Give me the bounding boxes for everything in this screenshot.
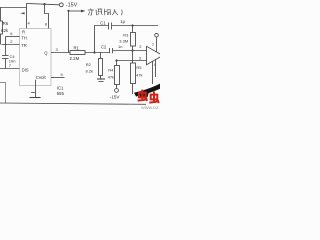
- wire pin8 drop: [45, 4, 49, 29]
- svg-text:Q: Q: [44, 50, 48, 55]
- capacitor C3 plate: [31, 92, 35, 94]
- wire R2 branch: [100, 53, 102, 59]
- svg-text:R5: R5: [136, 65, 142, 70]
- wire left bottom stub: [0, 83, 6, 104]
- wire C2 to op-amp: [113, 50, 147, 52]
- arrow mark: [20, 12, 24, 14]
- wire R4 bottom: [116, 85, 118, 89]
- svg-text:4: 4: [28, 21, 31, 26]
- svg-text:C1: C1: [100, 21, 106, 26]
- wire pin7 DIS: [0, 68, 20, 70]
- wire op-amp pin5 down: [155, 59, 157, 77]
- wire pin1 ground drop: [35, 80, 37, 98]
- logo watermark: [134, 84, 160, 110]
- svg-text:C2: C2: [101, 44, 107, 49]
- svg-text:CVolt: CVolt: [36, 75, 47, 80]
- svg-text:82k: 82k: [1, 28, 9, 33]
- svg-text:R4: R4: [108, 67, 114, 72]
- svg-text:555: 555: [57, 91, 65, 96]
- svg-text:TH: TH: [21, 36, 27, 41]
- char bo: [96, 9, 102, 15]
- wire riser to top rail: [26, 3, 28, 28]
- wire C1 branch riser: [95, 26, 109, 53]
- logo red char 1: [138, 90, 160, 103]
- svg-text:-15V: -15V: [66, 2, 78, 8]
- op-amp U2 triangle: [147, 46, 163, 65]
- wire top-left rail: [0, 7, 27, 9]
- char fang: [88, 8, 94, 15]
- wire ground rail: [0, 103, 146, 104]
- wire op-amp pin4 down: [152, 61, 154, 84]
- terminal pin7 circle: [155, 33, 159, 37]
- wire op-amp pin3 input: [117, 60, 147, 62]
- node junction dot pin2 net: [131, 49, 133, 51]
- svg-text:IC1: IC1: [57, 86, 64, 91]
- resistor R6 (left edge, half visible): [0, 21, 3, 34]
- resistor R3: [132, 26, 134, 33]
- ground R2: [97, 78, 105, 80]
- labels: [1, 2, 157, 99]
- node junction dot top rail: [43, 3, 45, 5]
- resistor R4: [115, 66, 120, 85]
- wire output tap vertical: [68, 11, 70, 53]
- wire pin3 output: [51, 52, 70, 54]
- wire pin6 TH: [6, 36, 20, 38]
- terminal -15V circle: [115, 89, 119, 93]
- svg-text:6: 6: [10, 31, 13, 36]
- wire pin2 TR: [2, 44, 20, 46]
- ground bar: [30, 97, 41, 99]
- svg-text:4: 4: [154, 62, 157, 67]
- char ru: [112, 9, 118, 15]
- wire R1 right: [85, 52, 109, 54]
- label square-wave annotation (fake CJK strokes): [88, 8, 122, 15]
- IC U1 555 box: [20, 29, 52, 86]
- svg-text:8.2k: 8.2k: [86, 68, 94, 73]
- svg-text:3.3M: 3.3M: [119, 39, 128, 44]
- svg-text:47k: 47k: [136, 72, 142, 77]
- svg-text:7: 7: [9, 63, 12, 68]
- svg-text:5: 5: [61, 72, 64, 77]
- wire pin5 stub: [51, 77, 65, 79]
- svg-text:WWW.DZ: WWW.DZ: [141, 105, 159, 110]
- svg-text:2.2M: 2.2M: [70, 56, 80, 61]
- svg-text:R: R: [22, 29, 25, 34]
- capacitor C4: [2, 55, 9, 57]
- wire TH-TR tie: [5, 37, 7, 56]
- svg-text:3: 3: [56, 47, 59, 52]
- svg-text:8: 8: [45, 21, 48, 26]
- logo swoosh: [134, 84, 160, 97]
- svg-text:1μ: 1μ: [120, 19, 125, 24]
- resistor R1: [70, 51, 85, 55]
- wire R5 riser: [132, 51, 134, 64]
- svg-text:2: 2: [139, 44, 142, 49]
- svg-text:TR: TR: [21, 43, 27, 48]
- wire C4 bottom: [5, 59, 7, 69]
- char shu: [104, 9, 111, 15]
- svg-text:R2: R2: [86, 62, 92, 67]
- svg-text:R1: R1: [74, 45, 80, 50]
- node output tap dot: [67, 10, 69, 12]
- paren: [120, 10, 123, 16]
- node junction dot after R1: [93, 51, 95, 53]
- svg-text:47k: 47k: [108, 75, 114, 80]
- wire R4 riser: [116, 61, 118, 66]
- wire R6 bottom to pin2 line: [0, 34, 2, 45]
- capacitor C1: [108, 23, 110, 30]
- svg-text:1n: 1n: [118, 44, 122, 49]
- wire C1 to node: [112, 25, 158, 27]
- wire R5 bottom: [132, 84, 134, 95]
- wire op-amp pin7 up: [156, 37, 158, 52]
- terminal +15V circle: [59, 3, 63, 7]
- svg-text:R6: R6: [3, 21, 9, 26]
- svg-text:10n: 10n: [9, 58, 16, 63]
- svg-text:2: 2: [10, 39, 13, 44]
- capacitor C2: [109, 48, 111, 53]
- resistor R5: [131, 63, 136, 84]
- wire arrow annotation: [69, 10, 83, 12]
- svg-text:DIS: DIS: [22, 68, 29, 73]
- logo red char 2: [149, 92, 159, 103]
- node junction dot C1 line: [131, 24, 133, 26]
- wire R6 top: [0, 8, 2, 22]
- svg-text:-15V: -15V: [110, 94, 121, 99]
- svg-text:3: 3: [139, 56, 142, 61]
- svg-text:R3: R3: [123, 33, 129, 38]
- resistor R2: [99, 59, 103, 76]
- node junction dot R4 top: [115, 59, 117, 61]
- svg-text:7: 7: [152, 42, 155, 47]
